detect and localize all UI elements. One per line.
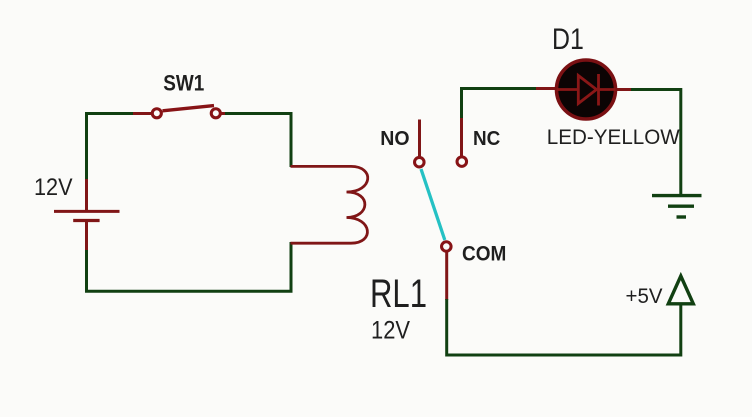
wire: SW1 right pin stub (red) <box>221 112 226 115</box>
svg-text:LED-YELLOW: LED-YELLOW <box>547 125 681 149</box>
svg-text:12V: 12V <box>34 174 73 201</box>
svg-text:NC: NC <box>473 128 500 150</box>
svg-text:D1: D1 <box>552 23 584 56</box>
battery BAT1 12V <box>54 179 120 251</box>
relay coil RL1 <box>291 166 368 243</box>
svg-text:12V: 12V <box>371 317 410 345</box>
wire: LED anode stub (red) <box>536 87 557 90</box>
wire: NC top to LED anode (green) <box>460 87 537 90</box>
svg-text:RL1: RL1 <box>370 272 427 316</box>
ground symbol <box>652 196 702 217</box>
LED D1 <box>557 60 616 119</box>
wire: COM to +5V (green) <box>447 299 681 355</box>
wire: LED to ground (green) <box>631 90 681 196</box>
svg-text:COM: COM <box>462 243 506 266</box>
svg-text:NO: NO <box>380 128 409 150</box>
wire: SW1 left pin stub (red) <box>133 112 152 115</box>
wire: NC pin from LED wire (green) <box>460 89 463 120</box>
wire: battery top to SW1 (green) <box>87 114 135 181</box>
wire: SW1 to coil top corner (green) <box>225 114 291 168</box>
relay contact NC pin (red) <box>457 118 467 166</box>
svg-text:SW1: SW1 <box>163 71 204 96</box>
power +5V symbol <box>668 276 693 304</box>
wire: LED cathode stub (red) <box>615 88 632 91</box>
relay armature (cyan lever NO-COM) <box>421 169 445 240</box>
relay contact NO pin <box>415 120 425 167</box>
wire: battery bottom to coil bottom corner (green) <box>87 242 292 291</box>
relay contact COM pin <box>442 242 452 300</box>
svg-text:+5V: +5V <box>626 284 664 308</box>
switch SW1 <box>152 106 220 118</box>
